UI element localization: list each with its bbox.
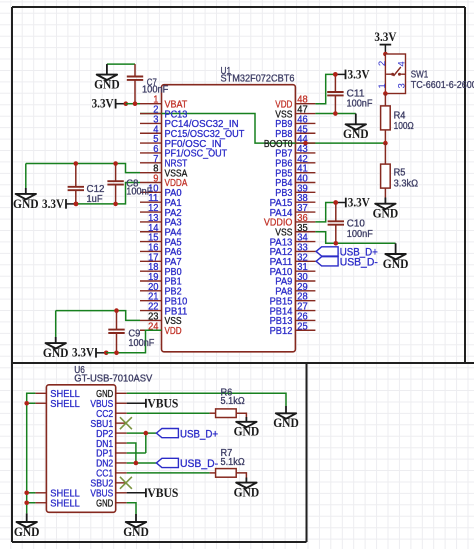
junction 3.3V C11 top xyxy=(333,72,338,77)
wire DN2 to label xyxy=(127,462,157,464)
U1 pin 28 PB15 xyxy=(270,292,316,308)
wire pin 47 VSS to GND xyxy=(315,113,355,115)
U1 pin 12 PA2 xyxy=(140,203,182,219)
U6 pin DN2 row 8 xyxy=(96,459,127,470)
ground G4 xyxy=(343,114,369,142)
capacitor C8 xyxy=(107,164,152,204)
U1 pin 21 PB10 xyxy=(140,292,188,308)
resistor R6 xyxy=(210,388,247,418)
svg-text:R4: R4 xyxy=(394,111,406,122)
wire BOOT0 to divider xyxy=(315,142,385,144)
wire DP2 to label and DP1 xyxy=(127,433,157,453)
junction on BOOT0 pin xyxy=(303,141,308,146)
U1 pin 10 PA0 xyxy=(140,183,182,199)
svg-text:GND: GND xyxy=(273,416,299,430)
wire CC2 to R6 xyxy=(127,412,210,414)
U1 pin 44 BOOT0 xyxy=(264,134,316,150)
U1 pin 48 VDD xyxy=(275,95,315,111)
ground G10 xyxy=(273,406,299,430)
wire 3.3V to pin 24 VDD xyxy=(106,330,161,353)
no-connect SBU2 xyxy=(120,477,132,489)
U1 pin 1 VBAT xyxy=(140,95,187,111)
capacitor C11 xyxy=(327,74,372,113)
U1 pin 13 PA3 xyxy=(140,213,182,229)
wire PC13 to BOOT0 xyxy=(140,114,315,144)
U1 pin 43 PB7 xyxy=(275,144,315,160)
svg-text:GND: GND xyxy=(234,486,260,500)
wire CC1 to R7 xyxy=(127,472,210,474)
junction C12 top xyxy=(74,161,79,166)
capacitor C12 xyxy=(68,164,105,205)
svg-text:GND: GND xyxy=(373,207,399,221)
U1 pin 27 PB14 xyxy=(270,302,316,318)
U1 pin 7 NRST xyxy=(140,154,187,170)
U1 pin 4 PC15/OSC32_OUT xyxy=(140,124,244,140)
svg-text:3: 3 xyxy=(397,83,408,88)
wire DN1 to DN2 xyxy=(127,443,136,463)
svg-text:3.3V: 3.3V xyxy=(348,67,370,81)
svg-text:GND: GND xyxy=(383,257,409,271)
svg-text:3.3V: 3.3V xyxy=(92,97,114,111)
wire 3.3V to pin 1 VBAT xyxy=(126,103,140,105)
svg-text:GND: GND xyxy=(343,127,369,141)
junction SHELL row2 xyxy=(24,401,29,406)
svg-text:USB_D-: USB_D- xyxy=(180,458,219,470)
svg-text:3.3V: 3.3V xyxy=(374,30,396,44)
switch SW1 TC-6601-6-2600 xyxy=(377,54,474,96)
svg-text:GND: GND xyxy=(123,525,149,539)
svg-text:GND: GND xyxy=(14,525,40,539)
ground G3 xyxy=(43,337,69,360)
net label USB_D- at PA11 xyxy=(315,257,378,269)
U6 pin SHELL row 12 xyxy=(35,498,80,509)
U1 pin 47 VSS xyxy=(275,105,315,121)
svg-text:3.3V: 3.3V xyxy=(348,195,370,209)
capacitor C9 xyxy=(108,311,154,353)
svg-text:100nF: 100nF xyxy=(347,229,373,240)
U6 pin SHELL row 11 xyxy=(35,489,80,500)
ground G1 xyxy=(94,64,120,91)
U6 pin DP1 row 7 xyxy=(96,449,127,460)
U6 pin SBU2 row 10 xyxy=(90,479,126,490)
U1 pin 18 PB0 xyxy=(140,262,182,278)
net label USB_D- at DN2 xyxy=(156,458,218,470)
svg-text:100nF: 100nF xyxy=(347,99,373,110)
connector U6 GT-USB-7010ASV body xyxy=(46,365,152,512)
ground G5 xyxy=(373,198,399,221)
junction C9 bottom xyxy=(114,351,119,356)
U1 pin 40 PB4 xyxy=(275,174,315,190)
net label USB_D+ at PA12 xyxy=(315,247,377,259)
svg-text:100nF: 100nF xyxy=(142,85,168,96)
svg-text:PB12: PB12 xyxy=(270,326,293,337)
wire pin 36 VDDIO to 3.3V xyxy=(315,203,335,222)
svg-text:USB_D+: USB_D+ xyxy=(180,428,218,440)
U6 pin SHELL row 1 xyxy=(35,389,80,400)
U1 pin 3 PC14/OSC32_IN xyxy=(140,114,239,130)
ground G11 xyxy=(234,478,260,500)
wire DP1 xyxy=(127,452,146,454)
svg-text:4: 4 xyxy=(397,61,408,67)
junction C9 top xyxy=(114,308,119,313)
svg-text:GND: GND xyxy=(96,498,113,509)
U6 pin VBUS row 2 xyxy=(90,399,126,410)
U1 pin 38 PA15 xyxy=(270,193,316,209)
svg-text:GND: GND xyxy=(94,78,120,92)
svg-text:25: 25 xyxy=(297,321,308,332)
U1 pin 14 PA4 xyxy=(140,223,182,239)
power 3.3V at pin 24 VDD xyxy=(72,346,108,360)
junction SHELL row12 xyxy=(24,500,29,505)
ic U1 STM32F072CBT6 body xyxy=(162,66,296,352)
svg-text:SHELL: SHELL xyxy=(50,399,80,410)
svg-text:GND: GND xyxy=(43,346,69,360)
U1 pin 37 PA14 xyxy=(270,203,316,219)
resistor R5 xyxy=(381,143,419,197)
resistor R7 xyxy=(210,448,247,477)
U1 pin 26 PB13 xyxy=(270,311,316,327)
U1 pin 33 PA12 xyxy=(270,242,316,258)
svg-text:3.3V: 3.3V xyxy=(72,346,94,360)
U1 pin 24 VDD xyxy=(140,321,182,337)
junction C10 top xyxy=(334,200,339,205)
ground G2 xyxy=(13,188,39,211)
U6 pin SBU1 row 4 xyxy=(90,419,126,430)
U1 pin 34 PA13 xyxy=(270,233,316,249)
svg-text:VBUS: VBUS xyxy=(147,396,178,410)
capacitor C7 xyxy=(127,64,169,104)
svg-text:3.3kΩ: 3.3kΩ xyxy=(394,179,419,190)
svg-text:100nF: 100nF xyxy=(128,338,154,349)
junction R4 R5 BOOT0 xyxy=(383,141,388,146)
U6 pin GND row 1 xyxy=(96,389,127,400)
junction C11 bottom xyxy=(333,111,338,116)
ground G8 xyxy=(123,514,149,539)
svg-text:2: 2 xyxy=(377,61,388,66)
svg-text:USB_D-: USB_D- xyxy=(340,257,379,269)
wire pin 35 VSS to GND xyxy=(315,232,395,244)
wire U6 GND top to ground xyxy=(127,393,286,406)
no-connect SBU1 xyxy=(120,417,132,429)
U1 pin 46 PB9 xyxy=(275,114,315,130)
U1 pin 20 PB2 xyxy=(140,282,182,298)
svg-text:STM32F072CBT6: STM32F072CBT6 xyxy=(221,74,295,85)
U1 pin 35 VSS xyxy=(275,223,315,239)
svg-text:TC-6601-6-2600: TC-6601-6-2600 xyxy=(411,80,474,91)
wire GND rail C9 to pin 23 VSS xyxy=(56,311,140,321)
U6 pin VBUS row 11 xyxy=(90,489,126,500)
U1 pin 41 PB5 xyxy=(275,164,315,180)
U1 pin 45 PB8 xyxy=(275,124,315,140)
U6 pin DN1 row 6 xyxy=(96,439,127,450)
U1 pin 30 PA9 xyxy=(275,272,315,288)
svg-text:R5: R5 xyxy=(394,167,406,178)
U6 pin GND row 12 xyxy=(96,498,127,509)
svg-text:GND: GND xyxy=(234,425,260,439)
svg-text:SW1: SW1 xyxy=(411,70,429,81)
U6 pin DP2 row 5 xyxy=(96,429,127,440)
junction SHELL row11 xyxy=(24,491,29,496)
svg-text:100nF: 100nF xyxy=(126,187,152,198)
U1 pin 9 VDDA xyxy=(140,174,188,190)
U1 pin 25 PB12 xyxy=(270,321,316,337)
U1 pin 31 PA10 xyxy=(270,262,316,278)
ground G7 xyxy=(14,513,40,539)
power 3.3V at C11 xyxy=(333,67,370,81)
junction C12 bottom xyxy=(74,202,79,207)
wire GND net to C7 top xyxy=(107,63,135,65)
U1 pin 29 PA8 xyxy=(275,282,315,298)
wire 3.3V rail to pin 9 VDDA xyxy=(76,183,140,204)
U1 pin 2 PC13 xyxy=(140,105,188,121)
svg-text:GT-USB-7010ASV: GT-USB-7010ASV xyxy=(74,374,152,385)
U1 pin 11 PA1 xyxy=(140,193,182,209)
power 3.3V above SW1 xyxy=(374,30,396,56)
ground G9 xyxy=(234,417,260,439)
power VBUS row11 xyxy=(127,486,179,500)
U6 pin CC2 row 3 xyxy=(96,409,127,420)
svg-text:VDD: VDD xyxy=(165,326,182,337)
svg-text:3.3V: 3.3V xyxy=(42,197,64,211)
junction C8 bottom xyxy=(113,202,118,207)
junction C10 bottom xyxy=(334,241,339,246)
U1 pin 19 PB1 xyxy=(140,272,182,288)
junction at C7 bottom xyxy=(133,101,138,106)
U1 pin 36 VDDIO xyxy=(264,213,316,229)
U6 pin CC1 row 9 xyxy=(96,469,127,480)
U1 pin 23 VSS xyxy=(140,311,182,327)
junction DP2 xyxy=(144,431,149,436)
svg-text:5.1kΩ: 5.1kΩ xyxy=(221,457,246,468)
svg-text:100Ω: 100Ω xyxy=(394,121,415,132)
junction DN2 xyxy=(134,461,139,466)
power 3.3V at C10 xyxy=(333,195,370,209)
U1 pin 42 PB6 xyxy=(275,154,315,170)
junction C8 top xyxy=(113,161,118,166)
U1 pin 22 PB11 xyxy=(140,302,188,318)
U1 pin 39 PB3 xyxy=(275,183,315,199)
wire U6 GND bottom to ground xyxy=(127,503,136,514)
svg-text:SHELL: SHELL xyxy=(50,498,80,509)
U1 pin 32 PA11 xyxy=(270,252,316,268)
wire pin 48 VDD to 3.3V xyxy=(315,74,335,103)
ground G6 xyxy=(383,243,409,271)
U1 pin 16 PA6 xyxy=(140,242,182,258)
wire GND rail C12 C8 xyxy=(26,164,140,173)
svg-text:GND: GND xyxy=(13,197,39,211)
U1 pin 15 PA5 xyxy=(140,233,182,249)
resistor R4 xyxy=(381,94,415,144)
svg-text:1: 1 xyxy=(377,83,388,88)
power 3.3V at pin1 xyxy=(92,97,129,111)
svg-text:5.1kΩ: 5.1kΩ xyxy=(221,396,246,407)
wire GND rail drop xyxy=(55,311,57,337)
U1 pin 17 PA7 xyxy=(140,252,182,268)
wire GND rail left drop xyxy=(25,164,27,189)
U1 pin 8 VSSA xyxy=(140,164,188,180)
capacitor C10 xyxy=(328,203,373,244)
net label USB_D+ at DP2 xyxy=(156,428,218,440)
wire SHELL rail xyxy=(27,393,36,513)
svg-text:VBUS: VBUS xyxy=(147,486,178,500)
U1 pin 6 PF1/OSC_OUT xyxy=(140,144,227,160)
U6 pin SHELL row 2 xyxy=(35,399,80,410)
power 3.3V at VDDA rail xyxy=(42,197,78,211)
U1 pin 5 PF0/OSC_IN xyxy=(140,134,222,150)
power VBUS row2 xyxy=(127,396,179,410)
